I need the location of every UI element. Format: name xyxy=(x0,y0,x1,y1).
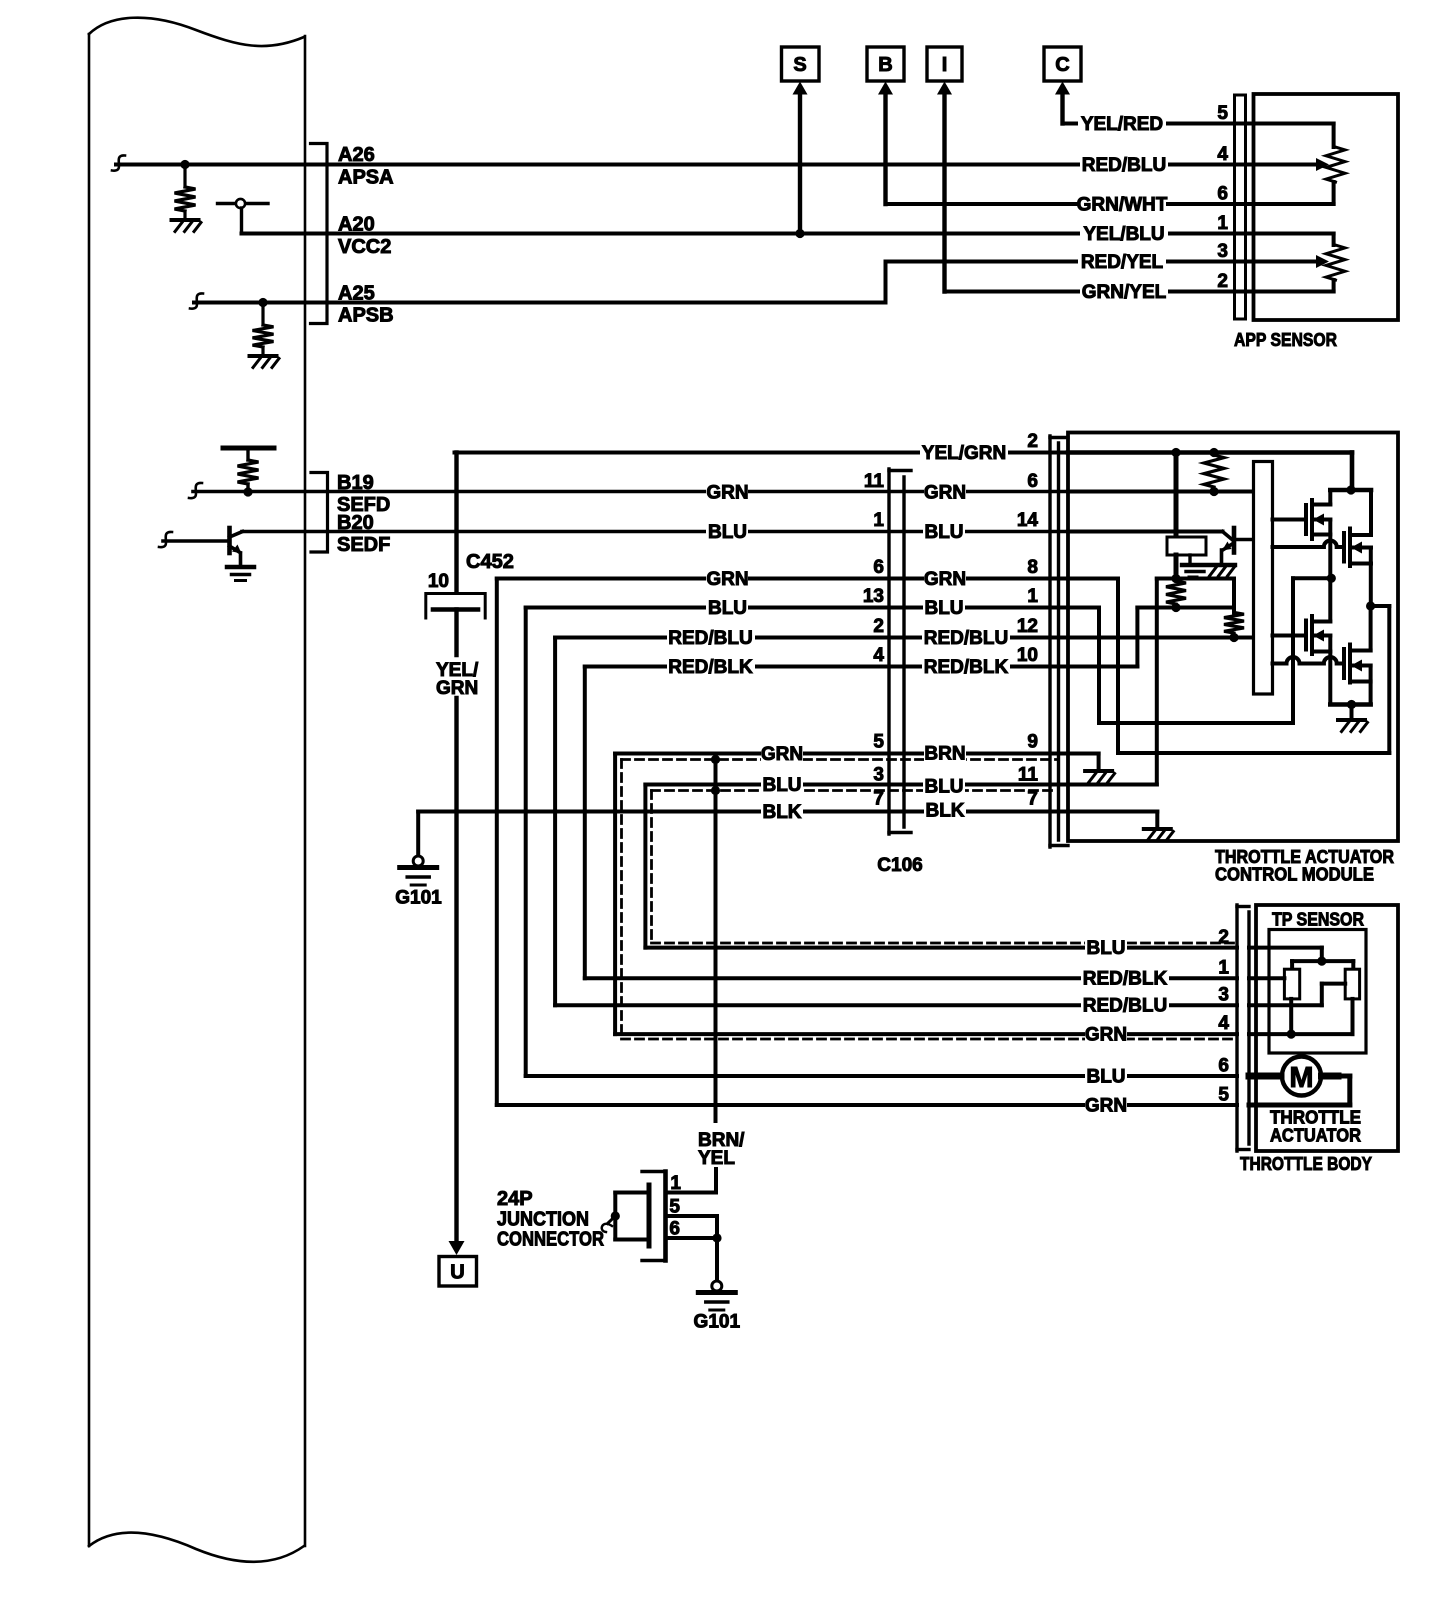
wire JC pin5 xyxy=(666,1214,718,1218)
wire YEL/GRN top row xyxy=(455,451,1069,455)
svg-text:10: 10 xyxy=(1017,645,1038,666)
node left loop mid xyxy=(611,1211,620,1220)
svg-text:APSA: APSA xyxy=(338,167,394,189)
node TP top xyxy=(1317,957,1326,966)
wire H-bridge bottom rail xyxy=(1330,702,1370,707)
node bridge A xyxy=(1327,574,1336,583)
transistor module base slant xyxy=(1223,532,1233,540)
svg-text:THROTTLE BODY: THROTTLE BODY xyxy=(1240,1153,1373,1174)
svg-text:BLU: BLU xyxy=(1086,1067,1125,1088)
ground for APSA resistor xyxy=(172,218,199,222)
pigtail end base xyxy=(159,532,172,547)
svg-text:B: B xyxy=(878,54,892,76)
resistor pull-up SEFD xyxy=(246,448,249,460)
wire label GRN right of C106 row8 xyxy=(924,569,966,588)
arrow into S box xyxy=(793,82,808,95)
wire APP pin4 wiper xyxy=(1254,163,1318,167)
node pin2 rail b xyxy=(1209,448,1218,457)
wire VCC2 drop xyxy=(240,208,243,234)
svg-text:BLU: BLU xyxy=(708,522,747,543)
connector box C xyxy=(1044,47,1081,81)
relay ground stub xyxy=(1188,555,1191,564)
ground G101 right xyxy=(712,1281,722,1291)
node R1 bottom xyxy=(1209,487,1218,496)
wire label BLK right of C106 xyxy=(924,801,966,820)
wire rail drop to R3 xyxy=(1232,579,1236,613)
wire C stem xyxy=(1060,93,1064,124)
svg-text:VCC2: VCC2 xyxy=(338,236,391,258)
svg-text:RED/BLU: RED/BLU xyxy=(1082,155,1166,176)
svg-text:2: 2 xyxy=(873,616,884,637)
wire label RED/BLU mid xyxy=(667,628,755,647)
svg-text:11: 11 xyxy=(864,471,885,492)
wire module pin7 row xyxy=(1068,810,1157,814)
svg-text:BLU: BLU xyxy=(708,598,747,619)
svg-text:G101: G101 xyxy=(395,888,442,909)
ground hatch bottom rail xyxy=(1338,718,1365,722)
wire TP r2 bottom drop xyxy=(1351,999,1355,1034)
wire module thick vertical xyxy=(1174,453,1179,538)
wire module left rail xyxy=(1157,577,1234,581)
node BRN/YEL at BLU shield xyxy=(711,786,720,795)
connector box U xyxy=(439,1257,477,1287)
svg-text:3: 3 xyxy=(1217,241,1228,262)
TP SENSOR box xyxy=(1269,930,1366,1054)
svg-text:3: 3 xyxy=(1218,985,1229,1006)
svg-text:BRN: BRN xyxy=(924,744,965,765)
wire module pin12 row xyxy=(1068,636,1254,640)
node TP bottom xyxy=(1287,1030,1296,1039)
wire motor right loop xyxy=(1322,1073,1339,1080)
svg-text:ACTUATOR: ACTUATOR xyxy=(1270,1125,1361,1146)
node junction on A26 row xyxy=(180,160,189,169)
node SEFD resistor junction xyxy=(243,487,252,496)
svg-text:U: U xyxy=(450,1262,464,1284)
wire BLU shielded row xyxy=(645,783,1068,787)
wire R2 bottom row xyxy=(1137,606,1234,610)
wire label RED/BLU right of C106 xyxy=(922,628,1010,647)
wire pin1 vertical xyxy=(1097,608,1101,724)
wire Q4 drain up xyxy=(1369,606,1373,651)
wire RED/YEL row xyxy=(886,260,1254,264)
wire BRN/YEL lower stub xyxy=(714,1169,718,1193)
wire below relay xyxy=(1174,555,1179,579)
ground G101 left xyxy=(413,856,423,866)
wire TP pin3 internal xyxy=(1249,1003,1322,1007)
wire Q1 source down xyxy=(1328,520,1332,579)
wire GRN shielded row xyxy=(615,752,1068,756)
wire bridgeA riser xyxy=(1291,578,1295,723)
wire TP r1 bottom drop xyxy=(1289,999,1293,1034)
power tee for SEFD pull-up xyxy=(223,446,274,451)
wire label GRN TB5 xyxy=(1085,1096,1127,1115)
node BRN/YEL at GRN shield xyxy=(711,755,720,764)
transistor module collector xyxy=(1235,538,1254,542)
TB connector bar xyxy=(1235,905,1238,1151)
connector box I xyxy=(927,47,962,81)
wire BLU row to C106 pin13 xyxy=(526,606,1068,610)
wire bridgeA link xyxy=(1293,576,1331,580)
wire label BLU right of C106 row11 xyxy=(923,777,965,796)
wire B20 SEDF row xyxy=(242,530,1068,534)
wire label YEL/RED xyxy=(1078,114,1166,133)
wire bottom rail ground stub xyxy=(1350,705,1354,719)
wire label BLU row 607 xyxy=(706,598,748,617)
svg-text:SEDF: SEDF xyxy=(337,534,390,556)
wire label BLU right of C106 row1 xyxy=(923,598,965,617)
wire module pin11 row xyxy=(1068,783,1157,787)
svg-text:5: 5 xyxy=(1217,103,1228,124)
node H-bridge top rail xyxy=(1346,485,1355,494)
wire label GRN right of C106 row6 xyxy=(924,483,966,502)
connector C106 xyxy=(887,469,890,834)
wire YEL/GRN vertical mid xyxy=(454,610,458,656)
wire GRN row TB pin4 xyxy=(615,1032,1237,1036)
wire module pin9 row xyxy=(1068,752,1099,756)
wire motor left stub xyxy=(1249,1073,1281,1080)
MOSFET Q3 xyxy=(1304,621,1308,650)
wire module pin10 row xyxy=(1068,665,1137,669)
node R2 bottom xyxy=(1171,603,1180,612)
wire APP pin5 internal xyxy=(1254,122,1334,126)
svg-text:1: 1 xyxy=(1217,213,1228,234)
node S stem to YEL/BLU xyxy=(795,229,804,238)
arrow into I box xyxy=(937,82,952,95)
connector bracket B19/B20 xyxy=(311,473,328,553)
wire label RED/BLK right of C106 xyxy=(922,657,1010,676)
wire JC pin6 xyxy=(666,1236,718,1240)
wire GRN/WHT row xyxy=(886,202,1254,206)
wire label RED/YEL xyxy=(1078,252,1166,271)
wire APP pin1 internal xyxy=(1254,232,1334,236)
node JC pin6 xyxy=(712,1233,721,1242)
wire pin10 riser xyxy=(1135,608,1139,667)
pigtail end A25 xyxy=(190,293,203,308)
wire step A25 to RED/YEL xyxy=(884,262,888,303)
svg-text:GRN: GRN xyxy=(1085,1025,1127,1046)
wire label BLU right of C106 row14 xyxy=(923,522,965,541)
wire pin7 ground drop xyxy=(1155,812,1159,828)
wire JC ground drop xyxy=(715,1238,719,1281)
svg-text:RED/BLK: RED/BLK xyxy=(1083,969,1168,990)
wire S stem xyxy=(798,93,802,234)
wire label GRN/YEL xyxy=(1080,282,1168,301)
resistor pulldown on APSB xyxy=(261,303,264,326)
svg-text:CONTROL MODULE: CONTROL MODULE xyxy=(1215,864,1374,885)
wire RED/BLK row to C106 pin4 xyxy=(585,665,1068,669)
svg-text:5: 5 xyxy=(669,1197,680,1218)
svg-text:A20: A20 xyxy=(338,214,375,236)
svg-text:A25: A25 xyxy=(338,283,375,305)
wire YEL/GRN vertical lower xyxy=(454,698,458,1246)
wire A20 VCC2 / YEL-BLU row xyxy=(242,232,1254,236)
wire RED/BLK vertical drop xyxy=(583,667,587,979)
wire module pin14 row xyxy=(1068,530,1223,534)
svg-text:GRN: GRN xyxy=(706,569,748,590)
ECM band wavy bottom edge xyxy=(89,1532,304,1561)
pigtail left loop xyxy=(608,1216,616,1224)
wire label YEL/GRN xyxy=(920,443,1008,462)
svg-text:BLU: BLU xyxy=(924,777,963,798)
junction connector left loop xyxy=(615,1191,646,1195)
wire GRN row TB pin5 xyxy=(497,1103,1237,1107)
wire Q2 gate line xyxy=(1273,545,1324,549)
pigtail end A26 xyxy=(112,155,125,170)
wire H-bridge top rail xyxy=(1330,488,1371,493)
wire label BLU TB6 xyxy=(1085,1067,1127,1086)
svg-text:13: 13 xyxy=(863,586,884,607)
wire label GRN row 753 xyxy=(761,744,803,763)
wire RED/BLU row TB pin3 xyxy=(555,1003,1237,1007)
shield dashed BLU xyxy=(652,789,1057,792)
wire YEL/GRN vertical upper xyxy=(454,453,458,593)
wire label BLK mid xyxy=(761,802,803,821)
wire B stem xyxy=(883,93,887,204)
wire GRN vertical drop xyxy=(495,579,499,1106)
svg-text:1: 1 xyxy=(1027,586,1038,607)
wire Q2 source down xyxy=(1369,548,1373,607)
svg-text:GRN/YEL: GRN/YEL xyxy=(1082,282,1167,303)
svg-text:5: 5 xyxy=(873,732,884,753)
THROTTLE BODY box xyxy=(1256,905,1398,1151)
wire pin11 riser xyxy=(1155,579,1159,785)
svg-text:8: 8 xyxy=(1027,557,1038,578)
svg-text:RED/BLK: RED/BLK xyxy=(924,657,1009,678)
svg-text:12: 12 xyxy=(1017,616,1038,637)
svg-text:GRN/WHT: GRN/WHT xyxy=(1077,195,1168,216)
transistor module base bar xyxy=(1232,528,1237,553)
transistor emitter with arrow xyxy=(230,546,241,553)
svg-text:RED/BLU: RED/BLU xyxy=(668,628,752,649)
resistor pulldown on APSA xyxy=(183,165,186,188)
APP sensor connector bar xyxy=(1235,95,1246,319)
potentiometer APP1 xyxy=(1326,147,1345,182)
wire pin2 rail drop right xyxy=(1350,453,1355,491)
THROTTLE ACTUATOR CONTROL MODULE box xyxy=(1068,433,1398,842)
wire BLU row TB pin2 xyxy=(645,946,1237,950)
wire GRN shield vertical xyxy=(613,754,617,1035)
node left rail xyxy=(1171,574,1180,583)
wire BLU vertical drop xyxy=(524,608,528,1077)
TP resistor element 1 xyxy=(1284,969,1299,999)
MOSFET Q1 xyxy=(1304,505,1308,534)
svg-text:BLU: BLU xyxy=(762,775,801,796)
wire RED/BLU vertical drop xyxy=(553,638,557,1006)
connector C452 tee xyxy=(433,607,478,612)
svg-text:BLU: BLU xyxy=(1086,938,1125,959)
relay coil box xyxy=(1167,537,1206,555)
svg-text:6: 6 xyxy=(1218,1056,1229,1077)
svg-text:A26: A26 xyxy=(338,144,375,166)
transistor Q ecm base bar xyxy=(227,528,232,553)
wire Q3 gate line xyxy=(1273,634,1307,638)
transistor base wire xyxy=(163,539,230,543)
svg-text:APSB: APSB xyxy=(338,305,394,327)
junction connector outer bracket xyxy=(663,1172,668,1261)
wire A25 APSB row xyxy=(194,301,886,305)
svg-text:JUNCTION: JUNCTION xyxy=(497,1209,589,1231)
svg-text:YEL/GRN: YEL/GRN xyxy=(922,443,1006,464)
ground for APSB resistor xyxy=(250,354,277,358)
wire Q3 source down xyxy=(1328,636,1332,705)
wire APP pot1 bottom to pin6 xyxy=(1332,182,1336,204)
svg-text:GRN: GRN xyxy=(924,569,966,590)
node bridge B xyxy=(1366,601,1375,610)
wire BLU shield vertical xyxy=(643,785,647,948)
svg-text:11: 11 xyxy=(1018,765,1039,786)
svg-text:BLU: BLU xyxy=(924,522,963,543)
svg-text:4: 4 xyxy=(1217,144,1228,165)
svg-text:6: 6 xyxy=(1027,471,1038,492)
svg-text:G101: G101 xyxy=(694,1312,741,1333)
wire BRN/YEL drain vertical xyxy=(714,760,718,1122)
wire label GRN row 578 xyxy=(706,569,748,588)
svg-text:7: 7 xyxy=(1027,789,1038,810)
wire Q4 gate line xyxy=(1273,662,1287,666)
wire pin9 ground drop xyxy=(1097,754,1101,770)
ground hatch transistor xyxy=(1210,568,1217,577)
wire label YEL/BLU xyxy=(1080,224,1168,243)
svg-text:TP SENSOR: TP SENSOR xyxy=(1272,909,1364,930)
potentiometer APP2 xyxy=(1326,245,1345,280)
svg-text:GRN: GRN xyxy=(1085,1096,1127,1117)
wire YEL/RED row xyxy=(1063,122,1254,126)
wire label RED/BLU xyxy=(1080,155,1168,174)
svg-text:S: S xyxy=(793,54,806,76)
wire pin8 bottom row xyxy=(1118,751,1389,755)
MOSFET Q4 xyxy=(1342,649,1346,678)
svg-text:7: 7 xyxy=(873,789,884,810)
ECM harness band right edge xyxy=(304,36,307,1546)
svg-text:YEL: YEL xyxy=(698,1148,735,1169)
svg-text:BLU: BLU xyxy=(924,598,963,619)
node pin2 rail a xyxy=(1171,448,1180,457)
TACM connector bar xyxy=(1048,436,1051,847)
wire Q2 drain up xyxy=(1369,490,1373,535)
wire module pin8 row xyxy=(1068,577,1118,581)
wire label GRN row B19 xyxy=(706,483,748,502)
svg-text:GRN: GRN xyxy=(924,483,966,504)
transistor module emitter xyxy=(1224,544,1234,550)
wire label RED/BLK mid xyxy=(667,657,755,676)
svg-text:5: 5 xyxy=(1218,1085,1229,1106)
svg-text:M: M xyxy=(1289,1062,1313,1094)
terminal circle VCC2 xyxy=(236,199,245,208)
svg-text:4: 4 xyxy=(873,645,884,666)
svg-text:3: 3 xyxy=(873,765,884,786)
svg-text:6: 6 xyxy=(1217,184,1228,205)
shield dashed GRN xyxy=(622,758,1057,761)
svg-text:APP SENSOR: APP SENSOR xyxy=(1234,329,1337,350)
wire Q1 gate line xyxy=(1273,518,1307,522)
wire label GRN/WHT xyxy=(1078,195,1166,214)
pigtail end B19 xyxy=(189,483,202,498)
wire APP pin3 wiper xyxy=(1254,260,1318,264)
svg-text:RED/BLU: RED/BLU xyxy=(1083,996,1167,1017)
wire A26 APSA / RED-BLU row xyxy=(116,163,1253,167)
node R3 bottom xyxy=(1229,633,1238,642)
svg-text:6: 6 xyxy=(669,1219,680,1240)
wire label BLU TB2 xyxy=(1085,938,1127,957)
svg-text:2: 2 xyxy=(1218,927,1229,948)
svg-text:10: 10 xyxy=(428,571,449,592)
svg-text:4: 4 xyxy=(1218,1013,1229,1034)
svg-text:9: 9 xyxy=(1027,732,1038,753)
wire BLK drop to ground xyxy=(416,812,420,857)
wire TP pin4 internal xyxy=(1249,1032,1353,1036)
resistor R3 module xyxy=(1224,613,1244,634)
svg-text:RED/YEL: RED/YEL xyxy=(1081,252,1164,273)
wire APP pot2 bottom to pin2 xyxy=(1332,280,1336,292)
wire label BLU row B20 xyxy=(706,522,748,541)
wire module pin2 rail xyxy=(1068,450,1352,455)
wire label RED/BLK TB1 xyxy=(1081,969,1169,988)
wire emitter drop xyxy=(239,553,243,566)
wire label BLU row 786 xyxy=(761,775,803,794)
ground for ECM transistor xyxy=(227,565,254,570)
svg-text:2: 2 xyxy=(1217,271,1228,292)
wire module pin1 row xyxy=(1068,606,1099,610)
svg-text:YEL/BLU: YEL/BLU xyxy=(1083,224,1164,245)
wire TP top bus xyxy=(1292,959,1353,963)
wire TP pin2 internal xyxy=(1249,946,1322,950)
connector C452 staple xyxy=(426,594,485,619)
wire Q3 drain up xyxy=(1328,578,1332,621)
wire B19 SEFD row xyxy=(193,490,1068,494)
svg-text:RED/BLK: RED/BLK xyxy=(668,657,753,678)
svg-text:B19: B19 xyxy=(337,472,374,494)
wire TP pin1 internal xyxy=(1249,976,1284,980)
wire label GRN TB4 xyxy=(1085,1025,1127,1044)
svg-text:1: 1 xyxy=(1218,958,1229,979)
ECM harness band left edge xyxy=(88,34,91,1546)
wire I stem xyxy=(942,93,946,292)
connector bracket A26/A20/A25 xyxy=(311,144,328,324)
svg-text:6: 6 xyxy=(873,557,884,578)
driver IC bar xyxy=(1254,462,1273,695)
svg-text:RED/BLU: RED/BLU xyxy=(924,628,1008,649)
svg-text:GRN: GRN xyxy=(706,483,748,504)
node junction on A25 row xyxy=(258,298,267,307)
wire label BRN right of C106 xyxy=(924,744,966,763)
MOSFET Q2 xyxy=(1342,533,1346,562)
wire label RED/BLU TB3 xyxy=(1081,996,1169,1015)
wire GRN/YEL row xyxy=(945,290,1254,294)
wire module pin6 row xyxy=(1068,490,1254,494)
svg-text:I: I xyxy=(942,54,948,76)
wire GRN row to C106 pin6 xyxy=(497,577,1068,581)
svg-text:C: C xyxy=(1055,54,1069,76)
transistor collector xyxy=(230,532,243,538)
ground hatch pin7 xyxy=(1144,827,1171,831)
ground bars relay xyxy=(1186,570,1204,573)
svg-text:BLK: BLK xyxy=(762,802,801,823)
svg-text:B20: B20 xyxy=(337,512,374,534)
connector box S xyxy=(782,47,820,81)
wire Q1 drain up xyxy=(1328,490,1332,505)
wire bridgeB riser xyxy=(1387,606,1391,753)
resistor R1 module xyxy=(1204,455,1224,487)
junction connector inner bar xyxy=(647,1185,652,1246)
svg-text:C452: C452 xyxy=(466,551,514,573)
wire stub with terminal circle (VCC2) xyxy=(218,202,269,205)
wire RED/BLK row TB pin1 xyxy=(585,976,1237,980)
APP SENSOR box xyxy=(1254,94,1399,320)
wire Q4 source down xyxy=(1369,666,1373,705)
wire pin8 vertical xyxy=(1116,579,1120,754)
arrow into U box xyxy=(449,1241,465,1255)
svg-text:2: 2 xyxy=(1027,431,1038,452)
